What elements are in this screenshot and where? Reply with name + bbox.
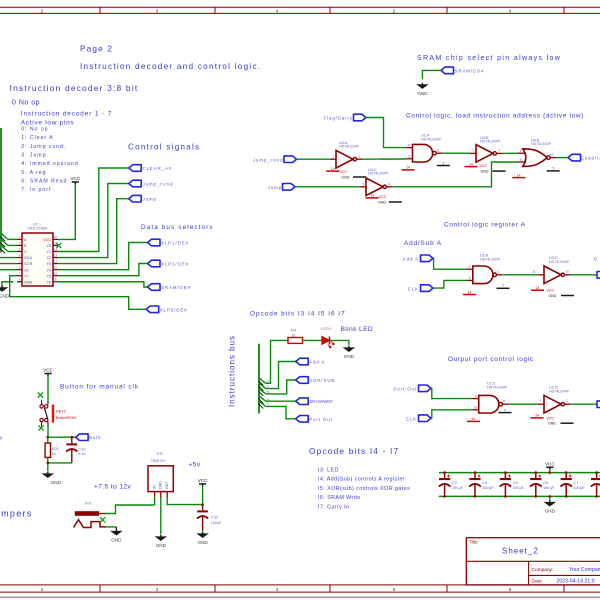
ground below button <box>42 472 62 485</box>
svg-text:14: 14 <box>406 166 410 170</box>
wire switch to junction node <box>47 427 49 438</box>
svg-text:SRAM/WE#: SRAM/WE# <box>309 399 333 404</box>
svg-text:Instruction decoder 1 - 7: Instruction decoder 1 - 7 <box>21 111 112 118</box>
svg-text:Add/Sub A: Add/Sub A <box>404 240 442 247</box>
svg-text:0.1u: 0.1u <box>78 452 85 456</box>
svg-text:Flag/Carry: Flag/Carry <box>324 116 354 121</box>
svg-text:VCC: VCC <box>198 478 208 483</box>
wire Y6 to SRAM/OE# <box>58 282 148 287</box>
svg-text:10: 10 <box>474 405 478 409</box>
wire U2:A out to U3:B <box>443 152 470 154</box>
svg-text:Y6: Y6 <box>46 280 51 284</box>
svg-text:Y3: Y3 <box>46 262 51 266</box>
svg-text:LED1: LED1 <box>321 326 332 331</box>
svg-text:GND: GND <box>549 294 557 298</box>
svg-text:Date: Date <box>532 578 542 584</box>
svg-text:GND: GND <box>197 540 208 545</box>
svg-text:Jumpers: Jumpers <box>0 508 33 518</box>
page edge gray line <box>0 596 600 598</box>
svg-text:Control signals: Control signals <box>128 143 200 152</box>
svg-text:11: 11 <box>436 149 439 153</box>
wire Y1 to CLEAR_A# <box>58 168 129 252</box>
svg-text:100uF: 100uF <box>211 521 222 525</box>
ground at C32 <box>196 532 209 545</box>
capacitor C8 <box>596 473 598 479</box>
wire U2:C out to U2:D <box>509 403 538 405</box>
svg-text:VCC: VCC <box>379 195 387 199</box>
svg-text:VCC: VCC <box>70 176 80 181</box>
svg-text:KEY2: KEY2 <box>56 408 66 413</box>
svg-text:7: 7 <box>442 161 444 165</box>
svg-text:Opcode bits I3 I4 I5 I6 I7: Opcode bits I3 I4 I5 I6 I7 <box>250 310 346 317</box>
global label Add A (bus) <box>296 358 309 365</box>
decoupling rail top wire <box>439 472 600 474</box>
svg-text:100 µF: 100 µF <box>574 485 586 490</box>
svg-text:ButtonPEKS: ButtonPEKS <box>56 416 77 420</box>
svg-text:C: C <box>594 257 597 262</box>
svg-text:Blink LED: Blink LED <box>341 326 374 333</box>
svg-text:Y5: Y5 <box>46 274 51 278</box>
svg-text:GND: GND <box>548 422 556 426</box>
svg-text:GND: GND <box>344 354 355 359</box>
svg-text:C32: C32 <box>211 515 218 520</box>
svg-text:XOR/SUB: XOR/SUB <box>309 378 335 383</box>
wire I4 to Add A <box>266 362 296 389</box>
clipped global label at right edge (out port) <box>597 401 600 408</box>
svg-text:3: Jump: 3: Jump <box>21 152 46 158</box>
svg-text:Sheet_2: Sheet_2 <box>502 547 539 556</box>
svg-text:Control logic, load instructio: Control logic, load instruction address … <box>406 112 584 119</box>
wire CLK to U2:C <box>431 410 473 418</box>
svg-text:VCC: VCC <box>547 289 555 293</box>
svg-text:1k: 1k <box>292 334 296 338</box>
no-connect X on Y0 <box>56 243 61 248</box>
svg-text:U11: U11 <box>157 450 164 455</box>
ground at regulator <box>155 535 168 548</box>
wire Y4 to XLP1/OE# <box>58 243 148 270</box>
wire JP9 to regulator IN <box>105 505 155 514</box>
svg-text:I3: LED: I3: LED <box>318 467 339 473</box>
wire I3 to R4/LED <box>266 340 288 383</box>
wire C32 to ground <box>202 530 204 532</box>
svg-text:Bulb: Bulb <box>89 435 101 440</box>
svg-text:R22: R22 <box>52 446 59 451</box>
svg-text:Jump: Jump <box>268 185 282 190</box>
wire junction down to R22 <box>47 437 49 443</box>
svg-text:VCC: VCC <box>43 368 53 373</box>
svg-text:SRAM/CS#: SRAM/CS# <box>455 68 485 73</box>
wire Y7 to XLP3/OE# <box>10 276 147 310</box>
wire Jump_cond to U3:A <box>297 158 330 160</box>
wire CLK to U2:B <box>433 280 467 288</box>
svg-text:12: 12 <box>54 259 58 263</box>
svg-text:GND: GND <box>341 175 349 179</box>
svg-text:I4: Add(Sub) controls A regis: I4: Add(Sub) controls A register <box>318 477 405 483</box>
wire R4 to LED1 <box>303 339 322 341</box>
global label CLEAR_A# <box>129 165 142 172</box>
svg-text:Your Company: Your Company <box>569 567 600 573</box>
svg-text:GND: GND <box>545 508 556 513</box>
svg-text:GND: GND <box>24 280 33 284</box>
wire U3:A out to U2:A pin13 <box>363 158 407 160</box>
svg-text:SRAM/OE#: SRAM/OE# <box>161 285 191 290</box>
wire GND pin to ground <box>2 282 14 287</box>
svg-text:6: SRAM Read: 6: SRAM Read <box>21 178 67 184</box>
jumper JP10 (clipped zigzag) <box>74 520 107 528</box>
svg-text:+5v: +5v <box>189 462 201 469</box>
svg-text:VCC: VCC <box>339 170 347 174</box>
svg-text:GND: GND <box>111 537 122 542</box>
wire I6 to SRAM/WE# <box>266 400 296 402</box>
IC U1 74HCT238 3:8 decoder <box>22 233 53 286</box>
svg-text:G1: G1 <box>24 268 29 272</box>
svg-text:HD74LS04P: HD74LS04P <box>480 140 501 144</box>
wire Y5 to XLP2/OE# <box>58 264 148 276</box>
svg-text:2: Jump cond.: 2: Jump cond. <box>21 144 66 150</box>
svg-text:Port Out: Port Out <box>393 386 417 391</box>
global label Jump <box>129 195 142 202</box>
svg-text:Button for manual clk: Button for manual clk <box>60 383 139 390</box>
wire I7 to Port Out <box>266 406 296 418</box>
wire U4:B out to Load/IAR# <box>556 157 568 159</box>
svg-text:10: 10 <box>54 272 58 276</box>
bus entries I3..I7 <box>259 378 266 383</box>
global label XOR/SUB <box>296 377 309 384</box>
svg-text:14: 14 <box>331 167 335 171</box>
capacitor C7 <box>565 473 567 479</box>
global label Bulb <box>76 434 89 441</box>
svg-text:Y7: Y7 <box>24 274 29 278</box>
svg-text:+7.5 to 12v: +7.5 to 12v <box>94 483 132 490</box>
capacitor C5 <box>504 473 506 479</box>
svg-text:11: 11 <box>532 269 535 273</box>
wire regulator OUT to VCC node <box>167 497 202 505</box>
global label XLP2/OE# <box>148 260 161 267</box>
svg-text:HD74LS04P: HD74LS04P <box>549 390 570 394</box>
svg-text:Y2: Y2 <box>46 256 51 260</box>
svg-text:10: 10 <box>565 269 569 273</box>
resistor R4 <box>288 338 303 344</box>
svg-text:2023-04-14 21:0: 2023-04-14 21:0 <box>557 578 595 584</box>
svg-text:I5: XOR(sub) controls XOR gat: I5: XOR(sub) controls XOR gates <box>318 486 410 492</box>
svg-text:G2 A: G2 A <box>24 256 33 260</box>
svg-text:HD74LS04P: HD74LS04P <box>368 172 389 176</box>
svg-text:14: 14 <box>370 194 374 198</box>
svg-text:Instructions bus: Instructions bus <box>228 335 237 407</box>
svg-text:CLK: CLK <box>406 417 417 422</box>
global label Jump_cond <box>129 180 142 187</box>
svg-text:SRAM chip select pin always l: SRAM chip select pin always low <box>417 55 561 62</box>
svg-text:Add A: Add A <box>309 360 325 365</box>
ground at SRAM/CS# <box>416 83 429 96</box>
svg-text:GND: GND <box>481 170 489 174</box>
svg-text:74HCT238M: 74HCT238M <box>27 226 47 230</box>
svg-text:13: 13 <box>54 253 58 257</box>
svg-text:HD74LS04P: HD74LS04P <box>339 145 360 149</box>
global label SRAM/CS# <box>441 67 454 74</box>
switch KEY2 push button <box>40 400 48 426</box>
global label Load/IAR# <box>568 154 581 161</box>
svg-text:C10: C10 <box>78 446 86 451</box>
wire JP10 to ground <box>106 526 116 528</box>
svg-text:100 µF: 100 µF <box>452 485 464 490</box>
svg-text:HD74LS04P: HD74LS04P <box>549 260 570 264</box>
svg-text:Jump: Jump <box>143 197 157 202</box>
svg-text:CLEAR_A#: CLEAR_A# <box>143 166 173 171</box>
wire SRAM/CS# to ground <box>422 70 441 79</box>
svg-text:XLP3/OE#: XLP3/OE# <box>160 307 188 312</box>
svg-text:VCC: VCC <box>480 164 488 168</box>
svg-text:7805 5V: 7805 5V <box>151 458 166 463</box>
wire U2:B out to U3:D <box>503 274 538 276</box>
svg-text:CLK: CLK <box>408 286 419 291</box>
ground at JP10 <box>110 529 123 542</box>
VCC above button <box>43 368 53 376</box>
wire LED1 to ground <box>330 340 349 345</box>
svg-text:4: Immed operand: 4: Immed operand <box>21 161 78 167</box>
svg-text:GND: GND <box>159 481 163 489</box>
svg-text:Jump_cond: Jump_cond <box>143 182 174 187</box>
capacitor C3 <box>444 473 446 479</box>
svg-text:R4: R4 <box>291 328 297 333</box>
svg-text:GND: GND <box>0 294 10 299</box>
capacitor C32 <box>202 505 204 511</box>
sheet frame top border <box>0 6 600 8</box>
svg-text:XLP2/OE#: XLP2/OE# <box>161 262 189 267</box>
VCC symbol at regulator output <box>198 478 208 486</box>
svg-text:I7: Carry In: I7: Carry In <box>318 504 349 510</box>
svg-text:Y4: Y4 <box>46 268 51 272</box>
resistor R22 <box>45 443 50 457</box>
svg-text:GND: GND <box>378 200 386 204</box>
svg-text:VCC: VCC <box>547 416 555 420</box>
wire Y3 to Jump <box>58 199 129 264</box>
VCC symbol above U1 <box>70 176 80 184</box>
svg-text:HD74LS02P: HD74LS02P <box>531 142 552 146</box>
svg-text:G2 B: G2 B <box>24 262 33 266</box>
global label SRAM/OE# <box>148 284 161 291</box>
GND on rail <box>549 496 551 501</box>
wire U3:C out to U4:B pin (bottom) <box>393 162 518 187</box>
instructions bus vertical wire <box>258 344 260 414</box>
capacitor C10 <box>71 437 73 443</box>
wire VCC to switch <box>47 376 49 402</box>
svg-text:7: 7 <box>504 408 506 412</box>
global label Port Out (bus) <box>296 416 309 423</box>
svg-text:IN: IN <box>152 485 156 489</box>
wire U3:D out to right edge <box>571 274 599 276</box>
svg-text:14: 14 <box>468 290 472 294</box>
svg-text:14: 14 <box>517 173 521 177</box>
wire junction to Bulb label <box>48 436 76 438</box>
svg-text:16: 16 <box>54 235 58 239</box>
svg-text:Data bus selectors: Data bus selectors <box>141 224 214 231</box>
svg-text:7: In port: 7: In port <box>21 187 51 193</box>
wire U3:B out to U4:B pin (top) <box>503 152 518 154</box>
svg-text:Jump_cond: Jump_cond <box>253 158 284 163</box>
svg-text:XLP1/OE#: XLP1/OE# <box>161 241 189 246</box>
svg-text:JP9: JP9 <box>85 501 91 505</box>
wire Flag/Carry to U2:A pin12 <box>366 118 406 148</box>
svg-text:Company:: Company: <box>532 567 554 573</box>
VCC on rail <box>545 462 555 470</box>
svg-text:0 No op: 0 No op <box>12 100 40 107</box>
svg-text:Control logic register A: Control logic register A <box>444 221 526 228</box>
wire Port Out to U2:C <box>431 388 473 398</box>
svg-text:100 µF: 100 µF <box>482 485 494 490</box>
svg-text:GND: GND <box>51 480 62 485</box>
svg-text:C: C <box>24 250 27 254</box>
svg-text:14: 14 <box>536 286 540 290</box>
svg-text:Y1: Y1 <box>46 250 51 254</box>
svg-text:HD74LS00P: HD74LS00P <box>480 258 501 262</box>
svg-text:100 µF: 100 µF <box>513 485 525 490</box>
capacitor C4 <box>474 473 476 479</box>
svg-text:1: Clear A: 1: Clear A <box>21 135 53 141</box>
svg-text:HD74LS00P: HD74LS00P <box>487 385 508 389</box>
svg-text:12: 12 <box>407 143 411 147</box>
svg-text:100 µF: 100 µF <box>543 485 555 490</box>
node junction button <box>46 436 49 439</box>
global label XLP1/OE# <box>148 239 161 246</box>
svg-text:Load/IA: Load/IA <box>582 156 600 161</box>
svg-text:1k: 1k <box>52 452 56 456</box>
svg-text:10: 10 <box>550 153 554 157</box>
title block <box>466 538 600 585</box>
svg-text:Instruction decoder 3:8 bit: Instruction decoder 3:8 bit <box>10 83 139 93</box>
svg-text:Output port control logic: Output port control logic <box>448 356 534 363</box>
no-connect X marks on switch <box>38 393 43 398</box>
svg-text:GND: GND <box>417 91 428 96</box>
wire Jump to U3:C <box>295 186 360 188</box>
wire VCC to U1 pin 16 <box>58 184 75 239</box>
wire U2:D out to right edge <box>571 403 599 405</box>
global label XLP3/OE# <box>146 306 159 313</box>
svg-text:VCC: VCC <box>43 238 51 242</box>
svg-text:Y0: Y0 <box>46 244 51 248</box>
svg-text:VCC: VCC <box>545 462 555 467</box>
svg-text:5: A reg: 5: A reg <box>21 170 46 176</box>
svg-text:Page 2: Page 2 <box>80 44 113 53</box>
svg-text:OUT: OUT <box>165 481 169 489</box>
svg-text:0: No op: 0: No op <box>21 127 48 133</box>
wire Add A to U2:B <box>433 258 467 269</box>
svg-text:k: k <box>0 436 3 441</box>
svg-text:7: 7 <box>552 167 554 171</box>
svg-text:11: 11 <box>54 265 57 269</box>
ground at U1 <box>0 286 10 299</box>
svg-text:7: 7 <box>502 284 504 288</box>
svg-text:I6: SRAM Write: I6: SRAM Write <box>318 495 361 501</box>
bus wire left edge <box>0 128 2 253</box>
svg-text:Port Out: Port Out <box>309 417 333 422</box>
svg-text:Title:: Title: <box>469 540 479 545</box>
svg-text:13: 13 <box>407 154 411 158</box>
svg-text:Add A: Add A <box>403 257 419 262</box>
bus entries to A B C <box>1 233 8 239</box>
wire R22/C10 bottoms to ground <box>47 457 49 463</box>
svg-text:GND: GND <box>156 543 167 548</box>
ground at LED1 <box>343 346 356 359</box>
wires into G2A G2B G1 <box>0 257 17 259</box>
wire Y2 to Jump_cond <box>58 184 129 258</box>
svg-text:Instruction decoder and contro: Instruction decoder and control logic. <box>80 62 261 71</box>
global label SRAM/WE# <box>296 398 309 405</box>
capacitor C6 <box>535 473 537 479</box>
decoupling rail bottom wire <box>439 495 600 497</box>
sheet frame bottom border <box>0 584 600 586</box>
svg-text:14: 14 <box>472 417 476 421</box>
wire I5 to XOR/SUB <box>266 380 296 394</box>
svg-text:14: 14 <box>535 414 539 418</box>
svg-text:14: 14 <box>469 162 473 166</box>
wire regulator GND to ground <box>160 497 162 534</box>
svg-text:HD74LS00P: HD74LS00P <box>421 138 442 142</box>
svg-text:Opcode bits I4 - I7: Opcode bits I4 - I7 <box>309 446 399 456</box>
wire regulator IN down <box>154 497 156 505</box>
